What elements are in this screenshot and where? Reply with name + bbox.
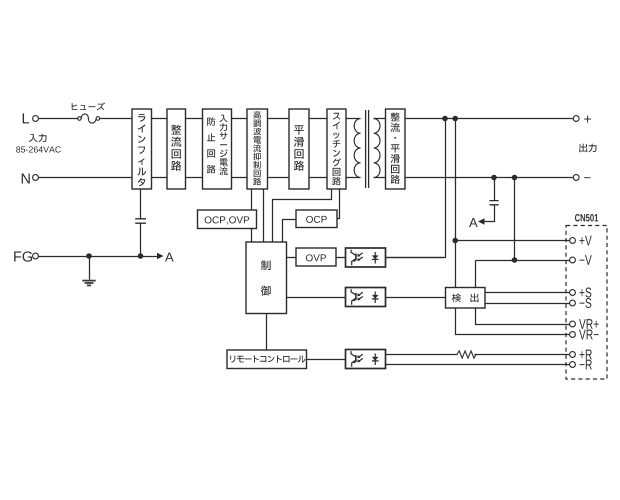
pin label −S [580,298,592,308]
text rectifier [171,125,181,171]
pin label −R [580,360,592,370]
terminal - output [573,175,579,181]
block smoothing (heikatsu kairo) [289,109,309,189]
text harmonic current suppression [253,111,261,185]
pin label VR− [579,330,599,340]
wire OCP,OVP to control [251,229,253,243]
wire L filter-rectifier [152,118,168,120]
block line filter [132,109,152,189]
block remote control [227,350,307,369]
wire +R right segment [475,354,570,356]
wire OCP to control [283,220,297,243]
wire L smoothing-switching [310,118,328,120]
wire xfmr secondary bottom to rect-smooth [374,177,386,179]
text input surge current (col right) [220,115,228,176]
terminal L [33,116,39,122]
wire OVP to photocoupler 1 [337,257,346,259]
wire N filter-rectifier [152,177,168,179]
text switching circuit [332,113,341,186]
terminal -R [570,362,576,368]
photocoupler PC3 (remote) [346,350,386,369]
terminal +V [570,238,576,244]
junction - rail minusV [512,175,518,181]
wire VR- [456,309,570,335]
wire N smoothing-switching [310,177,328,179]
wire harmonic to control [263,190,265,243]
block switching circuit [327,109,346,189]
wire -rail down to -V line [514,178,516,261]
terminal label FG [14,251,32,261]
pin label +R [579,350,591,360]
block detect (kenshutsu) [446,288,486,309]
wire N surge-harmonic [232,177,248,179]
junction +V line [452,238,458,244]
block inrush surge prevention [203,109,232,189]
junction FG-capacitor [138,253,144,259]
text detect 2 [471,294,479,303]
transformer T1 primary winding [354,119,360,178]
label - output [584,176,590,179]
label + output [584,116,591,123]
photocoupler PC2 (feedback) [346,288,386,307]
wire L rect-surge [186,118,203,120]
wire line filter to capacitor [140,190,142,219]
resistor R1 (+R line) [457,351,476,358]
earth ground symbol [82,281,95,286]
text prevention circuit (col left) [207,117,216,173]
terminal VR+ [570,321,576,327]
wire switching to xfmr primary bottom [347,177,361,179]
wire L to fuse [39,118,78,120]
wire control to OVP [287,257,297,259]
terminal N [33,175,39,181]
text line filter (rain firuta) [138,114,147,186]
wire remote to photocoupler 3 [307,359,346,361]
terminal label L [23,113,29,123]
fuse F1 [78,114,100,123]
wire N to line filter [39,177,133,179]
wire +rail down to +V/detect [455,119,457,288]
junction + rail a [442,116,448,122]
wire +S [486,292,570,294]
wire control to photocoupler 2 [287,297,346,299]
text OVP [306,254,326,261]
pin label −V [580,255,592,265]
wire capacitor to FG rail [140,224,142,257]
label 85-264VAC [16,146,61,152]
wire L harmonic-smoothing [268,118,290,120]
terminal -V [570,257,576,263]
block control (seigyo) [246,242,287,314]
wire switching to xfmr primary top [347,118,361,120]
wire cap to node A [484,206,495,222]
pin label +S [579,287,591,297]
terminal VR- [570,332,576,338]
junction - rail cap [491,175,497,181]
block output rectifier-smoothing [386,109,406,189]
text OCP,OVP [205,216,250,224]
photocoupler PC1 (OVP) [346,248,386,267]
label nyuuryoku (input) [29,134,47,143]
terminal +S [570,290,576,296]
transformer T1 core [366,110,369,188]
wire -S [486,303,570,305]
wire control to remote [266,314,268,351]
junction -V line [512,257,518,263]
capacitor output to chassis [489,201,498,205]
wire N rect-surge [186,177,203,179]
wire +R left segment [386,354,458,356]
terminal label N [22,174,30,184]
node label A (left) [165,253,174,262]
wire switching to control [273,190,332,243]
block OCP,OVP [198,210,257,229]
wire -rail down to output cap [494,178,496,201]
text control gyo [261,286,271,296]
connector CN501 dashed outline [566,226,607,380]
text smoothing circuit [294,125,304,170]
wire to earth ground [89,257,91,280]
label fuse (hyuzu) [72,103,105,111]
arrow to node A (left) [157,253,164,260]
node label A (right) [469,218,478,227]
wire +rail down to OVP opto [386,119,446,258]
wire -V down to detect [475,261,477,288]
text control sei [261,260,271,270]
wire switching to OCP [338,190,340,219]
wire - rail to output [406,177,574,179]
wire + rail to output [406,118,574,120]
wire photocoupler2 to detect [386,297,446,299]
wire +V line [456,240,570,242]
block OCP [296,210,337,228]
wire FG rail [39,256,159,258]
pin label +V [579,236,591,246]
text detect [452,294,461,303]
junction + rail b [452,116,458,122]
wire harmonic to OCP,OVP [251,190,253,211]
terminal + output [573,116,579,122]
capacitor line filter to FG [135,219,146,223]
label shutsuryoku (output) [579,144,596,153]
block harmonic current suppression [247,109,268,189]
terminal -S [570,300,576,306]
text remote control [230,355,305,362]
arrow to node A (right) [478,218,485,225]
terminal FG [33,253,39,259]
transformer T1 secondary winding [374,119,380,178]
junction FG-ground [86,253,92,259]
wire -V line [476,260,570,262]
wire fuse to line filter [100,118,133,120]
text rect/smooth circuit [391,113,400,184]
terminal +R [570,352,576,358]
wire photocoupler1 out [386,257,444,259]
wire -R [386,364,570,366]
label CN501 [575,214,598,222]
block rectifier (seiryuu kairo) [167,109,186,189]
wire xfmr secondary top to rect-smooth [374,118,386,120]
block OVP [296,248,336,266]
pin label VR+ [579,319,599,329]
wire VR+ [476,309,570,325]
text OCP [306,216,327,223]
wire L surge-harmonic [232,118,248,120]
wire N harmonic-smoothing [268,177,290,179]
